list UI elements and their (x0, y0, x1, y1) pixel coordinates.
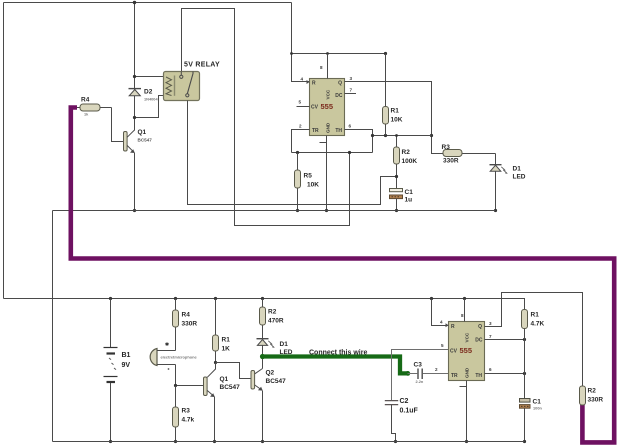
svg-text:10K: 10K (307, 182, 319, 189)
svg-text:2.2n: 2.2n (416, 379, 424, 384)
svg-text:1N4004: 1N4004 (144, 97, 158, 102)
wire coil top (135, 76, 164, 78)
wire gnd pin1 (320, 136, 327, 211)
capacitor C2 (385, 401, 398, 442)
wire pins 6-7 junction to C1 (524, 340, 526, 399)
svg-text:100n: 100n (533, 406, 542, 411)
svg-text:5: 5 (299, 100, 302, 105)
wire relay coil / Q1 collector vertical (134, 3, 136, 131)
wire pin8 lower (464, 299, 466, 322)
svg-text:Q: Q (478, 324, 482, 330)
svg-text:Q1: Q1 (220, 376, 229, 383)
svg-text:BC547: BC547 (220, 384, 241, 391)
svg-text:D1: D1 (280, 341, 289, 348)
resistor R4 (top) (74, 104, 112, 111)
svg-text:R1: R1 (391, 108, 400, 115)
svg-text:LED: LED (513, 174, 526, 181)
svg-text:R4: R4 (81, 97, 90, 104)
wire pin3 output (345, 82, 444, 154)
wire R4 to Q1 base (112, 108, 124, 142)
wire ground drop to bottom rail (52, 211, 54, 442)
wire pin8 vcc (327, 54, 329, 79)
svg-text:470R: 470R (268, 318, 284, 325)
LED D1 (top) (490, 154, 508, 211)
svg-text:4: 4 (301, 77, 304, 82)
svg-text:TH: TH (335, 128, 342, 134)
svg-text:electretmicrophone: electretmicrophone (161, 355, 198, 360)
wire green connect (260, 354, 410, 376)
resistor R1 10K (top) (383, 54, 389, 136)
svg-text:R2: R2 (588, 388, 597, 395)
svg-text:D1: D1 (513, 166, 522, 173)
microphone MK1 (150, 342, 175, 370)
wire ground rail bottom (53, 441, 525, 443)
svg-text:555: 555 (460, 346, 473, 355)
svg-text:R4: R4 (182, 312, 191, 319)
wire vcc rail bottom circuit (4, 299, 525, 310)
svg-text:GND: GND (465, 367, 470, 378)
svg-text:555: 555 (321, 102, 334, 111)
svg-text:R3: R3 (182, 408, 191, 415)
svg-text:4: 4 (440, 320, 443, 325)
svg-text:4.7k: 4.7k (182, 417, 195, 424)
wire pin5 cv stub (297, 106, 310, 108)
wire left border (3, 3, 5, 299)
wire purple jumper (71, 108, 614, 443)
wire pin4 lower (432, 299, 449, 326)
svg-text:R: R (451, 324, 455, 330)
wire tr-th link (292, 152, 373, 154)
svg-text:6: 6 (489, 367, 492, 372)
wire vcc drop to pin4 (292, 3, 310, 82)
svg-text:1u: 1u (405, 197, 413, 204)
wire mic minus to base node (176, 365, 204, 386)
wire coil bottom (135, 96, 164, 118)
svg-text:R: R (312, 81, 316, 87)
svg-text:B1: B1 (122, 352, 131, 359)
svg-text:3: 3 (489, 321, 492, 326)
svg-text:8: 8 (320, 65, 323, 70)
IC U1 555 (top) (307, 79, 345, 136)
wire Q1 collector to Q2 base (216, 363, 252, 379)
svg-text:0.1uF: 0.1uF (400, 408, 419, 415)
LED D1 (lower) (257, 339, 275, 369)
svg-text:R3: R3 (442, 144, 451, 151)
svg-text:5V RELAY: 5V RELAY (184, 62, 220, 69)
svg-text:4.7K: 4.7K (531, 321, 545, 328)
svg-text:R2: R2 (402, 149, 411, 156)
svg-text:2: 2 (299, 124, 302, 129)
wire node R1R2 (373, 135, 432, 137)
relay RL1 5V (164, 72, 200, 101)
svg-text:R1: R1 (222, 337, 231, 344)
svg-text:Q1: Q1 (138, 129, 147, 136)
wire top border (4, 2, 292, 4)
battery B1 (104, 299, 118, 442)
resistor R2 470R (260, 299, 266, 339)
svg-text:TR: TR (312, 128, 319, 134)
resistor R2 100K (394, 136, 400, 189)
svg-text:VCC: VCC (326, 89, 331, 99)
svg-text:BC547: BC547 (138, 138, 153, 143)
junction vcc rail (290, 52, 293, 55)
resistor R3 4.7k (173, 386, 179, 442)
wire Q1 emitter down (134, 153, 136, 211)
svg-text:GND: GND (326, 122, 331, 133)
resistor R4 330R (lower) (173, 299, 179, 351)
svg-text:8: 8 (461, 313, 464, 318)
svg-text:9V: 9V (122, 362, 131, 369)
svg-text:330R: 330R (588, 397, 604, 404)
wire pin7 to R1 (485, 339, 525, 341)
svg-text:5: 5 (441, 343, 444, 348)
resistor R2 330R (lower right) (580, 386, 586, 405)
svg-text:R5: R5 (304, 173, 313, 180)
transistor Q1 (lower) (204, 363, 216, 442)
svg-text:7: 7 (350, 88, 353, 93)
svg-text:C3: C3 (414, 362, 423, 369)
svg-text:C2: C2 (400, 398, 409, 405)
resistor R1 1K (213, 299, 219, 363)
svg-text:3: 3 (350, 76, 353, 81)
wire pin7 dc stub (345, 93, 357, 95)
capacitor C3 (408, 369, 449, 380)
wire relay NO contact to trigger loop (182, 9, 350, 226)
svg-text:10K: 10K (391, 117, 403, 124)
svg-text:2: 2 (435, 367, 438, 372)
svg-text:DC: DC (475, 338, 483, 344)
svg-text:R2: R2 (268, 309, 277, 316)
svg-text:DC: DC (335, 93, 343, 99)
wire pin2 trigger (292, 130, 310, 153)
diode D2 (129, 89, 142, 96)
svg-text:D2: D2 (144, 89, 153, 96)
svg-text:VCC: VCC (465, 332, 470, 342)
wire ground bus top circuit (53, 210, 496, 212)
resistor R3 330R (443, 150, 496, 157)
wire gnd lower 555 (460, 381, 467, 442)
transistor Q1 (relay driver) (124, 130, 135, 153)
capacitor C1 1u (top) (390, 189, 403, 211)
svg-text:C1: C1 (405, 189, 414, 196)
svg-text:Q2: Q2 (266, 370, 275, 377)
wire pin6 threshold (345, 130, 373, 153)
capacitor C1 100n (lower) (520, 399, 531, 442)
resistor R1 4.7K (522, 310, 528, 340)
svg-text:330R: 330R (443, 158, 459, 165)
svg-text:Q: Q (338, 81, 342, 87)
wire pin6 to node (485, 373, 525, 375)
svg-text:TH: TH (475, 373, 482, 379)
svg-text:BC547: BC547 (266, 378, 287, 385)
wire relay common down (188, 101, 397, 205)
svg-text:Connect this wire: Connect this wire (309, 350, 367, 357)
svg-text:CV: CV (311, 105, 319, 111)
wire vcc rail top (292, 53, 386, 55)
svg-text:330R: 330R (182, 321, 198, 328)
svg-text:C1: C1 (533, 399, 542, 406)
svg-text:TR: TR (451, 373, 458, 379)
svg-text:100K: 100K (402, 158, 418, 165)
svg-text:R1: R1 (531, 312, 540, 319)
svg-text:1K: 1K (222, 346, 231, 353)
resistor R5 10K (295, 153, 301, 211)
wire CV to C2 (392, 350, 449, 401)
IC U2 555 (lower) (446, 322, 485, 381)
svg-text:6: 6 (349, 124, 352, 129)
wire pin3 output to R2 330R (485, 293, 583, 387)
transistor Q2 (251, 369, 263, 442)
svg-text:7: 7 (489, 334, 492, 339)
svg-text:CV: CV (450, 349, 458, 355)
